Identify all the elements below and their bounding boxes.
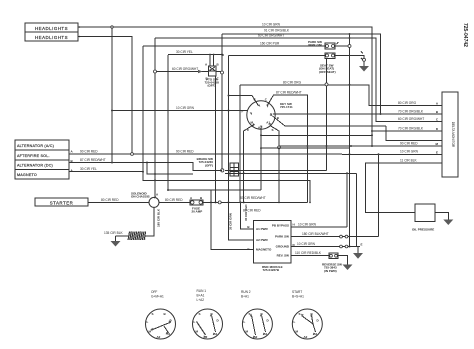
svg-text:70 CIR ORG/BLK: 70 CIR ORG/BLK xyxy=(398,109,424,113)
svg-text:L: L xyxy=(147,320,149,324)
PTO switch xyxy=(205,63,224,88)
wire 70 CIR ORG/BLK top xyxy=(222,29,381,114)
svg-text:A1 PWR: A1 PWR xyxy=(256,227,269,231)
svg-text:RUN 2: RUN 2 xyxy=(241,290,251,294)
svg-text:G+M+A1: G+M+A1 xyxy=(151,295,164,299)
ground chassis xyxy=(111,236,121,247)
wire 90 CIR RED pin M row xyxy=(279,141,442,147)
svg-text:E: E xyxy=(361,243,363,247)
wire 11 CIR BLK to oil pressure xyxy=(366,158,442,212)
svg-text:30 CIR YEL: 30 CIR YEL xyxy=(80,167,97,171)
wire 90 CIR RED row from alternator xyxy=(69,149,342,155)
svg-text:ON CHASSIS: ON CHASSIS xyxy=(131,195,150,199)
svg-text:L: L xyxy=(294,320,296,324)
svg-text:87 CIR RED/WHT: 87 CIR RED/WHT xyxy=(276,91,302,95)
wire battery negative 135 CIR BLK xyxy=(104,207,154,236)
wire fuse out 87 CIR RED/WHT xyxy=(203,196,307,204)
wire key A1 drop xyxy=(270,126,280,204)
key switch SW1 xyxy=(242,98,280,133)
svg-text:(OFF): (OFF) xyxy=(208,84,216,88)
svg-text:(OFF SEAT): (OFF SEAT) xyxy=(319,70,336,74)
headlight connector J2 xyxy=(25,32,80,41)
svg-text:60 CIR ORG/WHT: 60 CIR ORG/WHT xyxy=(398,117,424,121)
wire park sw row 180 CIR BLK/WHT xyxy=(291,153,380,238)
svg-text:80 CIR RED: 80 CIR RED xyxy=(243,209,261,213)
svg-text:10 CIR GRN: 10 CIR GRN xyxy=(297,242,316,246)
wire loop top edge xyxy=(229,55,326,57)
svg-text:725-1741: 725-1741 xyxy=(280,105,293,109)
wire connector row xyxy=(225,170,356,246)
svg-text:160 CIR PUR: 160 CIR PUR xyxy=(260,41,280,45)
svg-text:OIL PRESSURE: OIL PRESSURE xyxy=(412,228,434,232)
svg-text:87 CIR RED/WHT: 87 CIR RED/WHT xyxy=(80,158,106,162)
svg-text:135 CIR BLK: 135 CIR BLK xyxy=(104,231,123,235)
reverse switch xyxy=(322,253,342,273)
wire headlight2 drop xyxy=(78,37,132,153)
svg-text:A2 PWR: A2 PWR xyxy=(256,238,269,242)
svg-text:GROUND: GROUND xyxy=(276,245,290,249)
svg-text:OFF: OFF xyxy=(151,290,157,294)
alternator AC connector xyxy=(15,140,69,150)
wire 30 CIR YEL top row xyxy=(168,50,223,66)
svg-text:DELTA MONITOR: DELTA MONITOR xyxy=(451,122,455,148)
headlight connector J1 xyxy=(25,23,80,32)
svg-text:20 AMP: 20 AMP xyxy=(192,210,203,214)
wire 10 CIR GRN pin E row xyxy=(342,150,442,248)
svg-text:S: S xyxy=(299,312,301,316)
svg-text:START: START xyxy=(292,290,302,294)
seat switch xyxy=(319,53,336,74)
wire 160 CIR PUR park row xyxy=(143,41,348,46)
delta monitor module xyxy=(442,92,458,177)
svg-text:HEADLIGHTS: HEADLIGHTS xyxy=(35,26,68,31)
svg-text:80 CIR ORG: 80 CIR ORG xyxy=(398,101,417,105)
park switch xyxy=(308,40,338,49)
wire PTO feed 60 CIR ORG/WHT xyxy=(157,67,209,73)
wire key M drop xyxy=(243,125,254,204)
svg-text:180 CIR BLK/WHT: 180 CIR BLK/WHT xyxy=(302,232,329,236)
fuse F1 20A xyxy=(190,196,203,214)
brake switch xyxy=(197,157,239,176)
svg-text:B+A1: B+A1 xyxy=(197,294,205,298)
wire rev sw row 110 CIR RED/BLK xyxy=(291,251,329,256)
wire to brake row xyxy=(146,162,193,176)
svg-text:MAGNETO: MAGNETO xyxy=(17,173,37,177)
svg-text:11 CIR BLK: 11 CIR BLK xyxy=(400,158,417,162)
wire solenoid feed column xyxy=(154,38,156,197)
svg-text:ALTERNATOR (DC): ALTERNATOR (DC) xyxy=(17,164,53,168)
wire 10 CIR GRN headlights top xyxy=(78,23,373,147)
svg-text:90 CIR RED: 90 CIR RED xyxy=(80,149,98,153)
wire seat tap xyxy=(325,58,328,170)
wire brake loop drop xyxy=(228,56,230,177)
svg-text:A2: A2 xyxy=(157,335,161,339)
key position OFF xyxy=(146,290,176,339)
wire 87 CIR RED/WHT from afterfire xyxy=(69,158,222,170)
svg-text:H: H xyxy=(293,223,295,227)
svg-text:110 CIR RED/BLK: 110 CIR RED/BLK xyxy=(295,251,322,255)
svg-text:10 CIR GRN: 10 CIR GRN xyxy=(262,23,281,27)
wire ground row 10 CIR GRN xyxy=(291,242,360,248)
wire key D to 87 CIR RED/WHT xyxy=(267,91,307,203)
part number 725-04742 xyxy=(462,23,468,47)
svg-text:AFTERFIRE SOL.: AFTERFIRE SOL. xyxy=(17,154,50,158)
wire key C terminal row xyxy=(228,95,259,106)
wire PTO out xyxy=(216,71,221,73)
afterfire solenoid connector xyxy=(15,150,74,161)
wire park junction column xyxy=(348,33,351,247)
delta monitor pin letters xyxy=(436,102,439,155)
svg-text:90 CIR RED: 90 CIR RED xyxy=(176,149,194,153)
key position RUN 1 xyxy=(193,289,223,339)
svg-text:ALTERNATOR (A/C): ALTERNATOR (A/C) xyxy=(17,144,54,148)
wire 60 left drop xyxy=(154,70,157,73)
wire 30 CIR YEL from alternator DC xyxy=(69,167,261,190)
svg-text:10 CIR GRN: 10 CIR GRN xyxy=(400,150,419,154)
svg-text:(BRK ON): (BRK ON) xyxy=(308,43,322,47)
ground seat xyxy=(359,66,369,72)
wire 70 CIR ORG/BLK pin D row xyxy=(371,126,442,132)
starter solenoid xyxy=(131,192,159,208)
svg-text:S: S xyxy=(272,128,274,132)
wire seat switch to ground xyxy=(335,52,366,67)
wire A2 pwr column xyxy=(215,34,254,240)
wire magneto column xyxy=(210,190,254,250)
svg-text:60 CIR ORG/WHT: 60 CIR ORG/WHT xyxy=(258,34,284,38)
wire 185 CIR BLK label xyxy=(157,208,161,227)
svg-text:60 CIR ORG/WHT: 60 CIR ORG/WHT xyxy=(172,67,198,71)
svg-text:185 CIR BLK: 185 CIR BLK xyxy=(157,208,161,227)
ground reverse xyxy=(343,265,353,271)
svg-text:80 CIR RED: 80 CIR RED xyxy=(165,198,183,202)
wire 80 CIR ORG column xyxy=(239,85,241,203)
wire PB bypass link column xyxy=(346,172,348,227)
svg-text:87 CIR RED/WHT: 87 CIR RED/WHT xyxy=(240,196,266,200)
svg-text:L: L xyxy=(244,320,246,324)
svg-text:E: E xyxy=(436,151,438,155)
wire solenoid to fuse 80 CIR RED xyxy=(159,198,190,202)
wire starter cable 80 CIR RED xyxy=(88,198,149,202)
svg-text:90 CIR RED: 90 CIR RED xyxy=(400,141,418,145)
ground oil pressure xyxy=(443,220,453,226)
svg-text:PARK SW: PARK SW xyxy=(275,235,289,239)
key position START xyxy=(292,290,322,339)
key switch label xyxy=(280,102,293,109)
magneto connector xyxy=(15,169,74,180)
alternator DC connector xyxy=(15,159,74,170)
svg-text:MAGNETO: MAGNETO xyxy=(256,248,272,252)
wire loop left drop xyxy=(167,55,169,191)
wire oil pressure to ground xyxy=(435,213,448,220)
svg-text:91 CIR ORG/BLK: 91 CIR ORG/BLK xyxy=(264,29,290,33)
svg-text:(OFF): (OFF) xyxy=(205,163,213,167)
wire key S row xyxy=(273,116,387,126)
starter motor xyxy=(35,198,88,206)
svg-text:(IN FWD): (IN FWD) xyxy=(324,269,337,273)
wire 80 CIR ORG row xyxy=(240,80,442,105)
svg-text:35 CIR GRN: 35 CIR GRN xyxy=(229,213,233,230)
svg-text:REV. SW: REV. SW xyxy=(277,254,290,258)
svg-text:10 CIR GRN: 10 CIR GRN xyxy=(176,106,195,110)
svg-text:STARTER: STARTER xyxy=(50,200,74,205)
svg-text:B+A1: B+A1 xyxy=(241,295,249,299)
svg-text:S: S xyxy=(152,312,154,316)
wire 10 CIR GRN key L row xyxy=(111,106,247,112)
oil pressure switch xyxy=(412,204,435,232)
svg-text:S: S xyxy=(199,312,201,316)
wire reverse switch to ground xyxy=(338,256,348,265)
svg-text:PB BYPASS: PB BYPASS xyxy=(272,224,289,228)
svg-text:80 CIR ORG: 80 CIR ORG xyxy=(283,80,302,84)
svg-text:725-04227B: 725-04227B xyxy=(263,268,280,272)
ground strap coil xyxy=(128,232,146,241)
key position RUN 2 xyxy=(241,290,272,339)
svg-text:RUN 1: RUN 1 xyxy=(197,289,207,293)
RMC module xyxy=(247,221,295,273)
wire 160 left drop xyxy=(142,46,311,203)
svg-text:L: L xyxy=(194,320,196,324)
svg-text:L+A2: L+A2 xyxy=(197,298,205,302)
wire 60 CIR ORG/WHT top xyxy=(155,34,442,122)
wire headlight drop xyxy=(111,28,113,162)
wire key A2 row xyxy=(260,128,372,191)
svg-text:70 CIR ORG/BLK: 70 CIR ORG/BLK xyxy=(398,126,424,130)
ground RMC xyxy=(353,243,363,259)
svg-text:80 CIR RED: 80 CIR RED xyxy=(101,198,119,202)
wire key B row 70 CIR ORG/BLK xyxy=(273,109,442,140)
svg-text:30 CIR YEL: 30 CIR YEL xyxy=(176,50,193,54)
wire PB bypass row 10 CIR GRN xyxy=(291,222,347,227)
svg-text:HEADLIGHTS: HEADLIGHTS xyxy=(35,35,68,40)
wire A1 pwr feed 80 CIR RED xyxy=(240,201,262,229)
svg-text:A2: A2 xyxy=(304,335,308,339)
svg-text:B+S+A1: B+S+A1 xyxy=(292,295,304,299)
svg-text:725-04742: 725-04742 xyxy=(462,23,468,47)
svg-text:10 CIR GRN: 10 CIR GRN xyxy=(298,222,317,226)
